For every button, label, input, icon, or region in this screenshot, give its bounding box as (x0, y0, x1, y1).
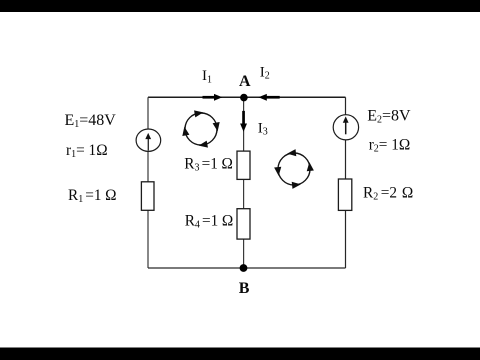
resistor R1 (141, 182, 154, 211)
source E1 internal arrow (145, 133, 151, 151)
node B junction dot (240, 264, 248, 272)
current arrow I3 (240, 111, 247, 132)
svg-text:R1=1Ω: R1=1Ω (68, 187, 117, 205)
wire bottom horizontal B-rail (148, 267, 346, 269)
letterbox top bar (0, 0, 480, 12)
svg-text:R3=1Ω: R3=1Ω (184, 155, 233, 173)
node A junction dot (240, 94, 248, 102)
current arrow I1 (203, 94, 223, 101)
svg-text:E1=48V: E1=48V (65, 112, 117, 130)
resistor R3 (237, 151, 250, 179)
resistor R4 (237, 209, 250, 239)
svg-text:R2=2Ω: R2=2Ω (363, 185, 413, 203)
source E2 circle (333, 115, 358, 140)
svg-text:A: A (239, 73, 251, 90)
resistor R2 (338, 179, 351, 210)
wire middle branch vertical (243, 97, 245, 268)
current arrow I2 (258, 94, 279, 101)
letterbox bottom bar (0, 348, 480, 360)
source E1 circle (136, 129, 161, 151)
svg-text:R4=1Ω: R4=1Ω (185, 213, 234, 231)
wire right branch vertical (345, 97, 347, 268)
source E2 internal arrow (343, 116, 349, 134)
svg-text:E2=8V: E2=8V (367, 107, 411, 125)
wire top horizontal A-rail (148, 96, 346, 98)
mesh loop arrow right (counter-clockwise) (272, 147, 315, 190)
mesh loop arrow left (clockwise) (178, 106, 223, 151)
wire left branch vertical (147, 97, 149, 268)
svg-text:B: B (239, 280, 250, 297)
